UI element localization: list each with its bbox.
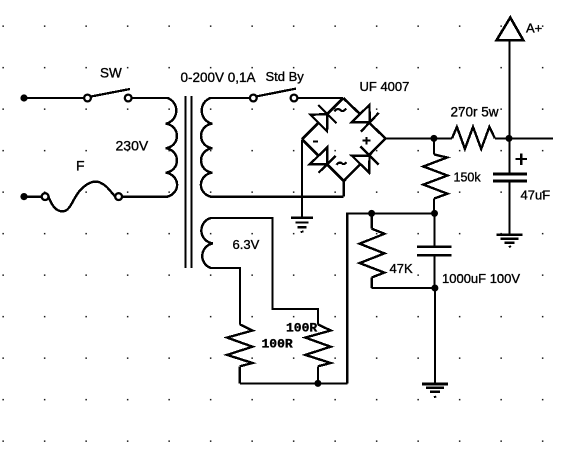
capacitor 1000uF 100V [417, 213, 452, 288]
ground G3 [422, 384, 448, 397]
diode D4 bottom-right arm [352, 146, 379, 172]
wire bridge output rail [386, 137, 453, 139]
svg-text:A+: A+ [526, 21, 542, 36]
transformer secondary winding 0-200V [201, 98, 344, 197]
resistor 47K [360, 213, 385, 288]
ground G2 [497, 235, 523, 247]
transformer primary winding 230V [122, 98, 177, 197]
resistor 100R left [227, 324, 252, 383]
wire 6.3V bottom drop [239, 267, 241, 325]
bridge polarity mark ~ bottom [337, 162, 347, 165]
capacitor 47uF [493, 138, 527, 234]
resistor 270r 5w [452, 127, 495, 149]
wire bridge minus to ground [301, 139, 303, 218]
transformer secondary winding 6.3V [201, 218, 272, 268]
wire A+ riser [508, 40, 510, 138]
node junction 1000uF bottom [431, 285, 438, 292]
capacitor 47uF plus mark [516, 153, 527, 165]
fuse F [42, 182, 122, 212]
svg-text:SW: SW [100, 66, 122, 81]
resistor 150k [423, 138, 447, 213]
svg-text:47K: 47K [390, 261, 413, 276]
wire bridge bottom corner down [343, 181, 345, 197]
svg-text:Std By: Std By [266, 69, 305, 84]
bridge arm wires UF 4007 [302, 98, 386, 181]
node junction 150k bottom [431, 210, 438, 217]
wire 47K bottom [372, 287, 435, 289]
svg-text:100R: 100R [262, 337, 293, 352]
diode D3 bottom-left arm [310, 147, 336, 173]
svg-text:47uF: 47uF [521, 188, 551, 203]
switch SW [84, 89, 131, 101]
svg-text:230V: 230V [116, 138, 149, 154]
svg-text:0-200V 0,1A: 0-200V 0,1A [181, 70, 256, 85]
svg-text:270r 5w: 270r 5w [451, 105, 499, 120]
wire heater bottom rail [240, 382, 347, 384]
node L input terminal [20, 94, 27, 101]
ground G1 [291, 218, 313, 232]
wire left drop [346, 212, 348, 383]
svg-text:100R: 100R [286, 321, 317, 336]
diode D1 top-left arm [311, 105, 337, 131]
bridge polarity mark ~ top [335, 109, 347, 112]
diode D2 top-right arm [352, 105, 379, 132]
bridge polarity mark + right [363, 137, 371, 144]
node junction rail/A+ [506, 135, 513, 142]
wire 6.3V top drop [273, 217, 318, 325]
node junction 47K top [368, 210, 375, 217]
power symbol A+ [497, 18, 524, 41]
wire [27, 195, 42, 197]
svg-text:1000uF 100V: 1000uF 100V [442, 271, 520, 286]
wire to ground G3 [434, 288, 436, 384]
resistor 100R right [305, 324, 330, 383]
wire rail right [495, 137, 553, 139]
wire mid rail [347, 212, 434, 214]
node junction rail/150k [430, 135, 437, 142]
svg-text:F: F [76, 158, 85, 174]
svg-text:150k: 150k [454, 171, 482, 185]
switch Std By [250, 89, 297, 102]
wire [297, 97, 343, 99]
node junction 100R bottom [314, 380, 321, 387]
bridge polarity mark - left [313, 140, 318, 142]
transformer core [186, 96, 192, 268]
svg-text:UF 4007: UF 4007 [360, 79, 410, 94]
svg-text:6.3V: 6.3V [233, 237, 260, 252]
node N input terminal [20, 193, 27, 200]
wire [27, 97, 84, 99]
